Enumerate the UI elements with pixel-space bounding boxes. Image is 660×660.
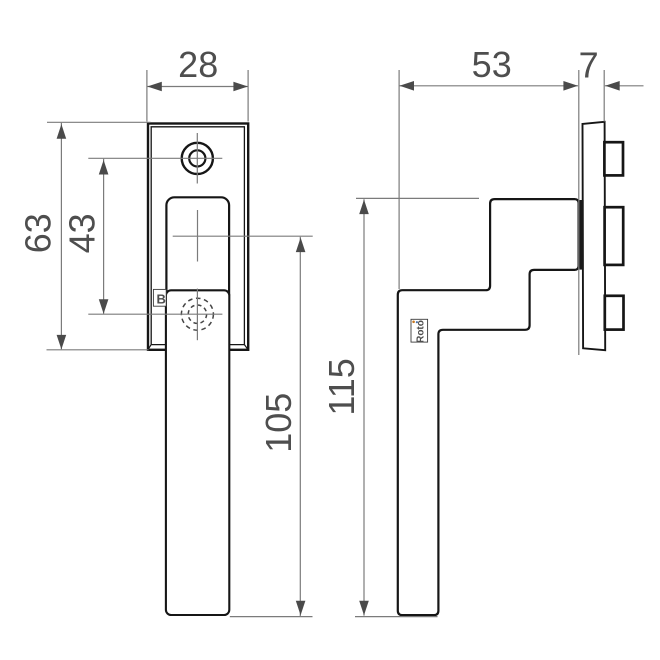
dim 105 arrows: [296, 238, 306, 253]
dim 7 arrow: [605, 81, 620, 91]
dim 43 line: [103, 159, 105, 314]
clip tab 3: [605, 296, 624, 330]
front plate outer: [148, 124, 248, 350]
dim 115 line: [363, 199, 365, 615]
handle profile side view: [398, 199, 579, 615]
dim 63 arrows: [57, 124, 67, 139]
dim 105 line: [299, 237, 301, 616]
spindle dashed outer circle: [181, 298, 213, 330]
svg-text:7: 7: [579, 45, 599, 86]
dim 28 line: [147, 86, 248, 88]
svg-text:105: 105: [258, 393, 299, 453]
neck centerline cross: [173, 235, 313, 237]
gasket between handle and backplate: [579, 200, 583, 270]
dim 43 arrows: [99, 160, 109, 175]
front plate corner chamfers: [147, 345, 248, 351]
dim 28 extension lines: [146, 70, 148, 122]
clip tab 1: [604, 142, 623, 175]
svg-text:63: 63: [17, 213, 58, 253]
dim 53 arrows: [400, 81, 415, 91]
svg-text:43: 43: [62, 213, 103, 253]
dim 115 arrows: [359, 200, 369, 215]
svg-text:53: 53: [472, 44, 512, 85]
svg-text:115: 115: [321, 358, 362, 415]
spindle dashed inner circle: [188, 305, 206, 323]
screw hole inner circle: [189, 150, 205, 166]
dim 28 arrows: [147, 82, 162, 92]
spindle vertical centerline: [196, 289, 198, 341]
dim 53 extension lines: [398, 70, 400, 289]
dim 43 extension / centerlines: [88, 157, 222, 159]
dim 7 line tail: [605, 85, 644, 87]
backplate side view: [583, 122, 606, 350]
screw hole outer circle: [182, 143, 213, 174]
svg-text:28: 28: [178, 44, 218, 85]
svg-text:Roto: Roto: [415, 320, 426, 343]
dim 63 line: [60, 123, 62, 349]
dim 53 line: [399, 85, 578, 87]
handle grip front view: [166, 290, 229, 615]
clip tab 2: [605, 207, 624, 265]
dim 63 extension lines: [47, 121, 151, 123]
front Roto stamp: [153, 289, 166, 306]
front plate inner bevel: [151, 127, 246, 345]
dim 105 bottom extension: [230, 616, 313, 618]
dim 115 extension lines: [356, 197, 479, 199]
handle neck front view: [166, 197, 229, 302]
screw hole vertical centerline: [196, 133, 198, 184]
svg-text:B: B: [157, 291, 166, 306]
side Roto stamp: [411, 319, 428, 343]
